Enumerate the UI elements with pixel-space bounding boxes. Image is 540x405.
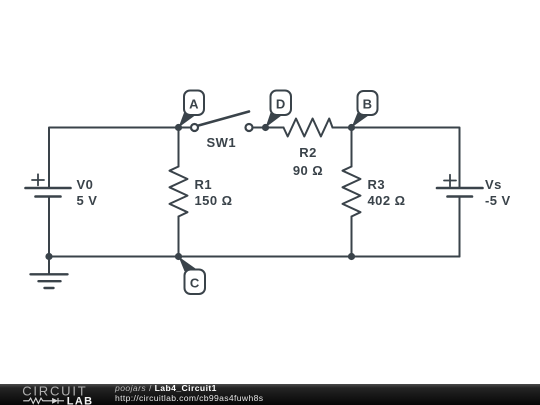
- switch right terminal circle: [246, 124, 253, 131]
- node D pointer: [266, 113, 283, 128]
- wire bottom rail: [49, 256, 460, 258]
- node D label box: [271, 91, 292, 116]
- junction dot R3 bottom: [348, 253, 355, 260]
- battery Vs long plate: [437, 187, 483, 190]
- footer title line: [115, 384, 217, 393]
- wire switch right terminal to node D: [254, 127, 266, 129]
- svg-text:R1: R1: [195, 177, 213, 192]
- node D junction dot: [262, 124, 269, 131]
- wire top from V0 to node A: [49, 128, 179, 188]
- wire Vs bottom lead: [459, 197, 461, 257]
- svg-text:LAB: LAB: [67, 395, 94, 405]
- wire node B to R3 top: [351, 128, 353, 167]
- wire R1 bottom lead: [178, 217, 180, 257]
- svg-text:SW1: SW1: [207, 135, 237, 150]
- svg-text:90 Ω: 90 Ω: [293, 163, 323, 178]
- svg-text:-5 V: -5 V: [485, 193, 511, 208]
- svg-text:Vs: Vs: [485, 177, 502, 192]
- svg-text:C: C: [190, 275, 200, 290]
- wire node B to Vs top: [352, 128, 460, 188]
- resistor R3: [343, 167, 361, 217]
- switch SW1 lever: [199, 112, 250, 126]
- node B label box: [358, 91, 378, 115]
- node C junction dot: [175, 253, 182, 260]
- battery Vs short plate: [448, 195, 473, 198]
- wire node D to R2 left lead: [266, 127, 284, 129]
- footer bar: [0, 384, 540, 405]
- svg-text:5 V: 5 V: [77, 193, 98, 208]
- battery V0 long plate: [26, 187, 71, 190]
- svg-text:150 Ω: 150 Ω: [195, 193, 233, 208]
- ground bar 3: [45, 287, 54, 289]
- footer url line: [115, 394, 263, 403]
- node A junction dot: [175, 124, 182, 131]
- node C label box: [185, 270, 206, 295]
- svg-text:402 Ω: 402 Ω: [368, 193, 406, 208]
- svg-text:A: A: [189, 96, 199, 111]
- wire R3 bottom lead: [351, 217, 353, 257]
- svg-text:D: D: [276, 96, 286, 111]
- ground stem: [48, 257, 50, 274]
- wire node A to R1 top: [178, 128, 180, 167]
- junction dot ground: [45, 253, 52, 260]
- svg-text:B: B: [363, 96, 373, 111]
- ground bar 2: [39, 280, 61, 282]
- resistor R2: [284, 119, 333, 137]
- wire R2 right lead to node B: [333, 127, 352, 129]
- node B junction dot: [348, 124, 355, 131]
- svg-text:R3: R3: [368, 177, 386, 192]
- ground bar 1: [31, 273, 68, 275]
- resistor R1: [170, 167, 188, 217]
- node B pointer: [352, 113, 370, 128]
- battery V0 short plate: [36, 195, 61, 198]
- node A label box: [184, 91, 204, 116]
- CircuitLab logo: [0, 384, 110, 405]
- Vs plus sign: [444, 175, 456, 186]
- wire V0 bottom to ground junction: [48, 197, 50, 257]
- logo waveform: [23, 398, 64, 404]
- switch left terminal circle: [191, 124, 198, 131]
- wire node A to switch left terminal: [179, 127, 191, 129]
- node A pointer: [179, 113, 197, 128]
- svg-text:V0: V0: [77, 177, 94, 192]
- node C pointer: [179, 257, 197, 272]
- logo diode triangle: [52, 398, 58, 404]
- svg-text:R2: R2: [299, 145, 317, 160]
- V0 plus sign: [32, 174, 44, 185]
